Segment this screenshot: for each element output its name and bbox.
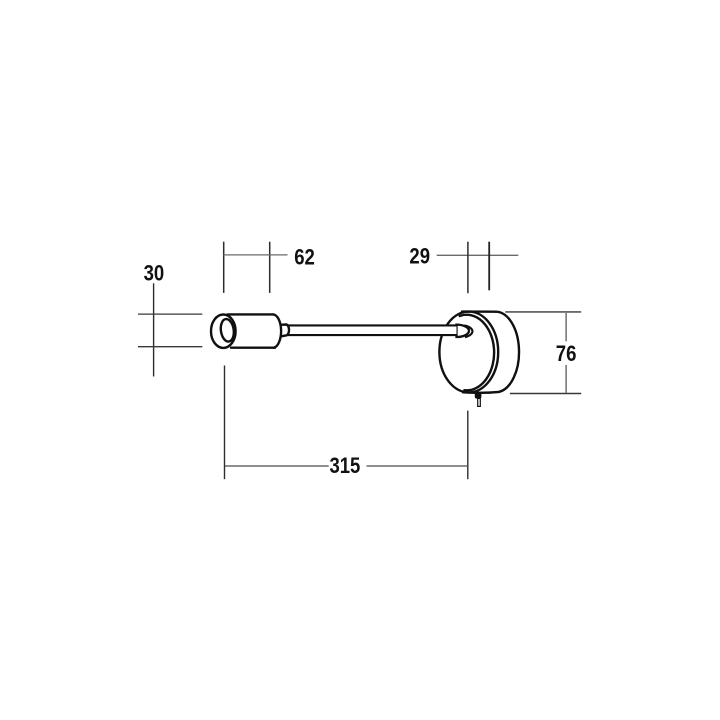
dim 30 vertical line: [153, 283, 155, 376]
dim 29 label: [409, 245, 430, 269]
dim 30 label: [144, 262, 165, 286]
arm ferrule at canopy: [457, 325, 473, 338]
switch knob: [475, 392, 482, 399]
svg-text:62: 62: [294, 246, 315, 270]
head body bottom line: [231, 347, 275, 349]
dim 315 horizontal line left segment: [225, 465, 329, 467]
dim 315 left extension line: [224, 366, 226, 480]
dim 76 bottom extension line: [510, 393, 581, 395]
dimension 76: [505, 312, 581, 394]
lamp head group: [211, 314, 289, 348]
dim 29 horizontal line: [437, 254, 519, 256]
canopy body back arc: [496, 312, 519, 392]
head rim inner arc: [233, 323, 235, 330]
head rounded right cap: [273, 314, 281, 347]
dim 30 lower extension line: [138, 346, 202, 348]
ferrule crescent arc: [464, 325, 472, 337]
switch stem: [478, 398, 481, 406]
dimension 315: [225, 366, 469, 480]
canopy front outer ellipse: [439, 312, 498, 393]
head rear nub: [281, 325, 289, 337]
dim 315 right extension line: [467, 411, 469, 480]
svg-text:315: 315: [329, 455, 360, 479]
svg-text:76: 76: [556, 342, 577, 366]
dim 76 vertical line upper segment: [565, 313, 567, 341]
dim 62 left tick: [223, 242, 225, 293]
dim 30 upper extension line: [138, 313, 202, 315]
canopy body top edge: [462, 310, 496, 313]
head body top line: [228, 313, 274, 315]
head front rim outer ellipse: [211, 315, 236, 348]
dim 76 vertical line lower segment: [565, 365, 567, 393]
dim 76 label: [556, 342, 577, 366]
dimension 30: [138, 283, 202, 376]
dim 62 horizontal line: [224, 254, 288, 256]
canopy front face inner arc: [460, 315, 494, 391]
dim 315 label: [329, 455, 360, 479]
dim 29 right tick: [488, 242, 490, 291]
dim 76 top extension line: [505, 311, 581, 313]
head lens inner ellipse: [219, 318, 235, 342]
dim 29 left tick: [467, 242, 469, 294]
svg-text:29: 29: [409, 245, 430, 269]
canopy body bottom edge: [463, 391, 499, 394]
wall canopy group: [439, 312, 519, 393]
svg-text:30: 30: [144, 262, 165, 286]
dimension 29: [437, 242, 519, 294]
dimension 62: [224, 242, 288, 293]
dim 62 right tick: [269, 242, 271, 293]
flexible arm tube: [287, 325, 457, 335]
dim 62 label: [294, 246, 315, 270]
dim 315 horizontal line right segment: [367, 465, 469, 467]
